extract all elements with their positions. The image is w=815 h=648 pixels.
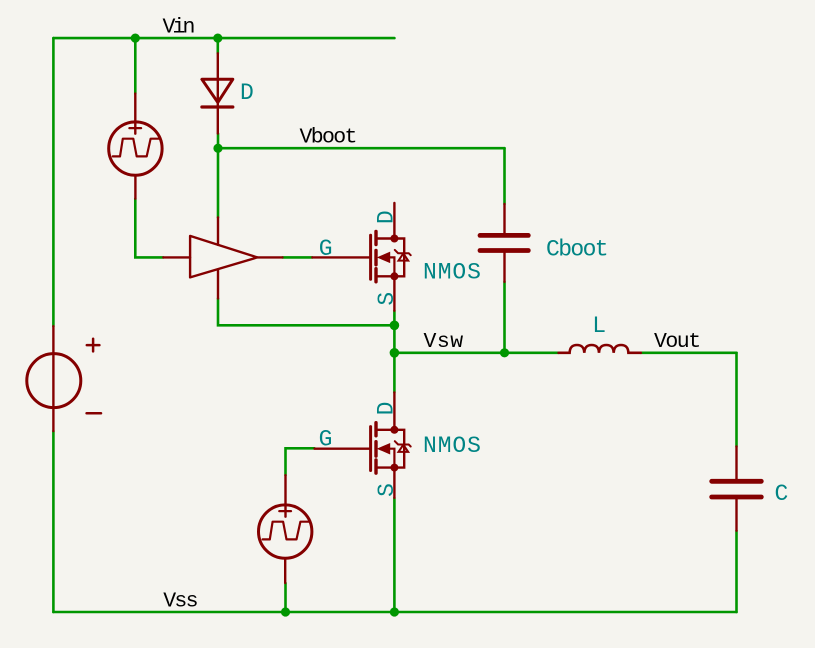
wire Vboot horizontal [218,147,505,150]
capacitor Cboot [480,204,528,282]
wire Cboot bottom to Vsw [503,282,506,353]
junction Cboot / Vsw [500,348,509,357]
svg-text:Vss: Vss [163,589,197,613]
wire gate M2 to pulse source V3 [286,448,315,475]
junction M1 source / driver return [390,321,400,331]
voltage source V1 (DC) [27,326,101,431]
wire bottom rail Vss [53,611,736,614]
nmos M2 [315,392,411,498]
svg-text:L: L [592,313,606,339]
junction Vboot [213,144,222,153]
svg-text:Vin: Vin [163,16,195,40]
pulse source V2 [109,94,162,199]
buffer U1 [163,217,282,298]
junction Vss / M2 source [390,607,399,616]
svg-text:Cboot: Cboot [546,237,607,263]
wire M1 source down through Vsw to M2 drain [393,311,396,393]
wire left rail lower [52,431,55,612]
junction Vsw node [390,348,400,358]
wire diode cathode to Vboot junction [217,134,220,218]
svg-text:S: S [374,292,400,306]
wire right rail lower [735,531,738,612]
wire left rail upper [52,38,55,326]
wire M2 source to bottom rail [393,498,396,612]
wire buffer output to gate M1 [283,256,313,259]
svg-text:D: D [374,210,400,224]
svg-text:NMOS: NMOS [423,259,482,285]
svg-text:Vout: Vout [654,330,700,354]
wire pulse source V2 bottom to buffer input [135,199,163,258]
svg-text:Vboot: Vboot [300,126,356,150]
junction Vin / pulse source [131,34,140,43]
wire Vsw horizontal [394,351,558,354]
inductor L [559,345,641,353]
nmos M1 [312,203,410,311]
svg-text:C: C [775,481,789,507]
wire Vout horizontal [641,351,737,354]
wire buffer bottom to source M1 [218,299,394,326]
wire right rail upper [735,353,738,447]
wire diode anode stub [217,38,220,53]
wire pulse source V2 top [134,38,137,94]
junction Vss / pulse source V3 [281,607,290,616]
svg-text:Vsw: Vsw [424,330,464,354]
wire top rail Vin [53,37,394,40]
wire pulse source V3 bottom [284,583,287,612]
svg-text:G: G [319,236,333,262]
wire Vboot vertical to Cboot [503,148,506,204]
capacitor C [712,447,762,531]
svg-text:G: G [319,427,333,453]
svg-text:D: D [374,402,400,416]
svg-text:NMOS: NMOS [423,433,482,459]
pulse source V3 [259,475,312,583]
diode D [202,53,233,133]
svg-text:D: D [240,80,254,106]
junction Vin / diode [213,34,222,43]
svg-text:S: S [374,483,400,497]
